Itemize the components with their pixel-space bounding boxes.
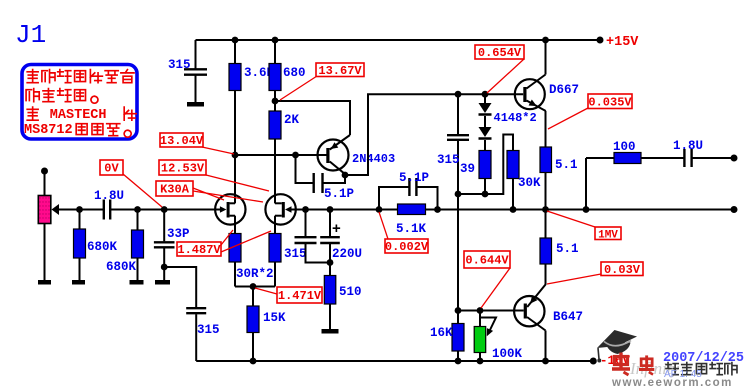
wire 5.1upper to main — [545, 173, 547, 239]
svg-text:0.644V: 0.644V — [465, 254, 509, 268]
wire cap315TL bottom — [195, 76, 197, 103]
node 16K rail — [455, 358, 462, 365]
svg-text:+: + — [332, 220, 341, 237]
resistor R 680K (2) — [132, 230, 144, 258]
capacitor C 220U — [320, 237, 340, 243]
capacitor C 315 (right) — [447, 135, 469, 140]
svg-text:100K: 100K — [492, 347, 523, 361]
svg-text:100: 100 — [613, 140, 636, 154]
svg-text:220U: 220U — [332, 247, 362, 261]
leader 13.04V — [202, 147, 234, 154]
wire long vertical 458 upper — [457, 94, 459, 134]
terminal input top — [41, 168, 48, 175]
svg-text:5.1K: 5.1K — [396, 222, 427, 236]
svg-text:0.035V: 0.035V — [588, 95, 632, 109]
ground (510) — [322, 329, 339, 334]
wire 680 top — [274, 40, 276, 64]
wire diode to R39 — [484, 140, 486, 151]
node main/33P — [161, 206, 168, 213]
wire source join — [235, 286, 275, 288]
watermark url — [611, 377, 733, 389]
node 15K rail — [250, 358, 257, 365]
wire y194 row — [458, 135, 513, 195]
svg-text:30K: 30K — [518, 176, 541, 190]
leader 0.035V — [548, 108, 588, 129]
leader 1.471V — [255, 288, 277, 294]
capacitor C 5.1P (right) — [409, 178, 416, 196]
label 3.6K — [244, 66, 275, 80]
label 4148*2 — [494, 111, 537, 125]
wire 16K top — [457, 311, 459, 324]
label 1.8U (left) — [94, 189, 124, 203]
svg-text:510: 510 — [339, 285, 362, 299]
wire output h1 — [586, 157, 614, 159]
wire 315mid top — [305, 210, 307, 237]
svg-text:13.67V: 13.67V — [318, 64, 362, 78]
resistor R 39 — [479, 151, 491, 179]
label 15K — [263, 311, 286, 325]
wire 100K bottom — [479, 353, 481, 362]
label 16K — [430, 326, 453, 340]
diode D2 4148 — [479, 127, 492, 139]
svg-text:5.1P: 5.1P — [399, 171, 429, 185]
voltage box 0.002V — [385, 239, 429, 254]
resistor R 15K — [247, 306, 259, 333]
wire 220U top — [329, 210, 331, 237]
capacitor C 1.8U (right) — [684, 149, 691, 167]
node C (680/2K junction) — [272, 98, 279, 105]
wire 33P top — [163, 210, 165, 242]
svg-text:680K: 680K — [106, 260, 137, 274]
label 2K — [284, 113, 300, 127]
capacitor C 5.1P (left) — [314, 173, 323, 193]
wire D667 collector to rail — [545, 40, 547, 75]
label 680K (2) — [106, 260, 137, 274]
svg-text:D667: D667 — [549, 83, 579, 97]
wire 680K2 bottom — [137, 258, 139, 280]
wire pot bottom — [44, 224, 46, 281]
node 33P bottom — [161, 264, 168, 271]
wire 30K bottom to main — [512, 179, 514, 210]
voltage box 13.04V — [160, 133, 204, 148]
svg-text:12.53V: 12.53V — [161, 162, 205, 176]
wire 3.6K bottom to JFET1 drain — [234, 91, 236, 204]
wire output h3 — [692, 157, 734, 159]
svg-text:16K: 16K — [430, 326, 453, 340]
resistor R 30R (2) — [269, 234, 281, 263]
watermark faint text — [629, 359, 680, 378]
node base row 458 — [455, 307, 462, 314]
transistor Q3 B647 — [514, 296, 545, 331]
label + polarity — [332, 220, 341, 237]
wire 680K1 bottom — [79, 258, 81, 280]
label 100K — [492, 347, 523, 361]
resistor R 5.1 (lower) — [540, 238, 552, 264]
node main/680K2 — [134, 206, 141, 213]
leader 0.002V — [379, 212, 388, 239]
wire 510 bottom — [329, 304, 331, 329]
capacitor C 315 (top-left) — [184, 69, 207, 74]
svg-text:315: 315 — [284, 247, 307, 261]
node source join — [250, 283, 257, 290]
wire between diodes — [484, 116, 486, 127]
ground (33P) — [155, 280, 170, 285]
capacitor C 315 (bottom-left) — [186, 308, 206, 313]
wiper arrow input — [52, 204, 60, 215]
transistor Q4 K30A (left JFET) — [215, 194, 245, 224]
resistor R 16K — [452, 324, 464, 352]
resistor R 30K — [507, 151, 519, 179]
node main/30K — [510, 206, 517, 213]
wire 100K top — [479, 311, 481, 327]
voltage box 1.471V — [277, 287, 322, 303]
label 30K — [518, 176, 541, 190]
resistor R 680K (1) — [74, 229, 86, 258]
node drain1 (y155) — [232, 152, 239, 159]
node diode-cap junction (458,94) — [455, 91, 462, 98]
leader 1.487V a — [221, 230, 233, 245]
svg-text:0V: 0V — [104, 162, 119, 176]
svg-text:1.8U: 1.8U — [673, 139, 703, 153]
wire 2K bottom to JFET2 drain — [274, 139, 276, 203]
wire bottom rail — [196, 360, 593, 362]
svg-text:1MV: 1MV — [598, 229, 618, 241]
wire main left segment — [58, 209, 103, 211]
node Q1 collector — [342, 172, 349, 179]
label 5.1 (upper) — [555, 158, 578, 172]
wire Q5 source — [274, 216, 276, 234]
leader 12.53V — [206, 175, 269, 191]
node main/gate2 (305.5) — [302, 206, 309, 213]
wire 33P to ground — [163, 267, 165, 280]
resistor R 30R (1) — [229, 234, 241, 263]
wire 5.1lower to B647 emitter — [527, 264, 545, 307]
watermark graduation cap — [597, 330, 637, 363]
svg-text:680K: 680K — [87, 240, 118, 254]
wire diode branch top — [484, 94, 486, 103]
capacitor C 315 (mid) — [295, 237, 317, 243]
svg-text:13.04V: 13.04V — [160, 134, 204, 148]
resistor R 5.1K — [398, 204, 426, 215]
label 1.8U (right) — [673, 139, 703, 153]
node gate junction (295.5,155) — [292, 152, 299, 159]
wire Q4 source bottom — [234, 262, 236, 287]
voltage box 0.644V — [464, 251, 510, 268]
ground (680K 2) — [130, 280, 144, 285]
svg-text:+15V: +15V — [606, 35, 639, 50]
wire 680 to 2K — [274, 91, 276, 112]
voltage box 13.67V — [316, 63, 364, 78]
transistor Q5 K30A (right JFET) — [265, 194, 295, 224]
resistor R 680 — [269, 64, 281, 91]
wire 680K1 top — [79, 210, 81, 230]
svg-text:1.471V: 1.471V — [278, 289, 322, 303]
svg-text:315: 315 — [197, 323, 220, 337]
voltage box 12.53V — [159, 160, 206, 176]
label 5.1K — [396, 222, 427, 236]
wire 33P bottom — [163, 248, 165, 267]
wire main mid segment — [111, 209, 222, 211]
svg-text:MS8712: MS8712 — [24, 123, 73, 138]
svg-text:1.487V: 1.487V — [177, 243, 221, 257]
svg-text:4148*2: 4148*2 — [494, 111, 537, 125]
watermark -16V label — [600, 354, 631, 368]
wire Q5 source bottom — [274, 262, 276, 287]
wire 33P node to cap315BL — [164, 267, 196, 307]
transistor Q1 2N4403 — [318, 135, 351, 174]
wire main right segment — [290, 209, 734, 211]
node main/combo left — [376, 206, 383, 213]
resistor R 510 — [324, 276, 336, 305]
watermark date — [663, 351, 744, 366]
svg-text:K30A: K30A — [160, 183, 190, 197]
wire D667 emitter down — [545, 111, 547, 147]
svg-text:B647: B647 — [553, 310, 583, 324]
node D667 collector rail — [542, 37, 549, 44]
potentiometer R 100K — [474, 327, 486, 353]
svg-text:315: 315 — [168, 58, 191, 72]
label 315 (top-left cap) — [168, 58, 191, 72]
leader K30A a — [193, 188, 224, 200]
node A (top rail / 3.6K) — [232, 37, 239, 44]
wiper wire 100K — [480, 318, 496, 337]
node main/5.1 junction — [542, 206, 549, 213]
label 5.1P (right) — [399, 171, 429, 185]
wire 15K to rail — [252, 333, 254, 362]
leader 1MV — [547, 211, 595, 227]
node 458/194 junction — [455, 191, 462, 198]
node diode top (485,94) — [482, 91, 489, 98]
node output end — [731, 155, 738, 162]
capacitor C 33P — [154, 242, 175, 247]
leader 0.654V — [487, 59, 524, 93]
resistor R 100 — [614, 153, 641, 164]
wire 3.6K top — [234, 40, 236, 64]
watermark site name — [666, 363, 737, 375]
label 315 (right cap) — [437, 153, 460, 167]
svg-text:39: 39 — [460, 162, 475, 176]
wire node C to Q1 emitter — [275, 101, 350, 135]
voltage box 1MV — [595, 227, 621, 241]
svg-text:5.1P: 5.1P — [324, 187, 354, 201]
svg-text:0.654V: 0.654V — [478, 46, 522, 60]
transistor Q2 D667 — [515, 75, 546, 112]
wire pot top — [44, 171, 46, 196]
svg-text:30R*2: 30R*2 — [236, 267, 274, 281]
label +15V — [606, 35, 639, 50]
resistor R 5.1 (upper) — [540, 147, 552, 173]
leader 0V — [123, 174, 162, 207]
svg-text:5.1: 5.1 — [556, 242, 579, 256]
svg-text:1.8U: 1.8U — [94, 189, 124, 203]
leader 1.487V b — [221, 231, 271, 252]
node rail end — [590, 358, 597, 365]
leader K30A b — [193, 191, 263, 202]
voltage box 0.03V — [601, 262, 643, 277]
node main/output branch — [583, 206, 590, 213]
wire long vertical 458 lower — [457, 141, 459, 310]
node B647 collector rail — [542, 358, 549, 365]
label 2N4403 — [352, 152, 395, 166]
node 100K rail — [477, 358, 484, 365]
svg-text:15K: 15K — [263, 311, 286, 325]
node base row 480 — [477, 307, 484, 314]
wire 315mid bottom — [306, 244, 331, 263]
svg-text:J1: J1 — [15, 20, 46, 50]
wire output up — [585, 158, 587, 210]
wire 5.1P right — [323, 175, 345, 183]
label 100 — [613, 140, 636, 154]
label B647 — [553, 310, 583, 324]
label 33P — [167, 227, 190, 241]
voltage box 0V — [100, 160, 123, 176]
svg-text:www.eeworm.com: www.eeworm.com — [611, 377, 733, 389]
resistor R 3.6K — [229, 64, 241, 91]
wire 220U bottom — [329, 244, 331, 263]
label 315 (mid) — [284, 247, 307, 261]
node main/combo right — [434, 206, 441, 213]
node main end — [731, 206, 738, 213]
wire Q4 source — [234, 216, 236, 234]
label D667 — [549, 83, 579, 97]
note box (measurement note) — [22, 65, 137, 140]
svg-text:0.03V: 0.03V — [604, 263, 641, 277]
svg-text:0.002V: 0.002V — [385, 240, 429, 254]
wire cap315TL top — [195, 40, 197, 69]
svg-text:2K: 2K — [284, 113, 300, 127]
wire output h2 — [641, 157, 684, 159]
svg-text:33P: 33P — [167, 227, 190, 241]
label 680K (1) — [87, 240, 118, 254]
voltage box 0.035V — [588, 94, 632, 109]
voltage box 0.654V — [475, 45, 524, 60]
wire R39 bottom — [484, 179, 486, 195]
wire B647 base row — [458, 310, 524, 312]
leader 13.67V — [280, 76, 317, 100]
label 315 (bottom-left) — [197, 323, 220, 337]
wire 16K bottom — [457, 351, 459, 361]
label 39 — [460, 162, 475, 176]
wire Q1 collector to D667 base — [345, 94, 523, 175]
voltage box 1.487V — [177, 242, 221, 257]
capacitor C 1.8U (left) — [104, 200, 110, 220]
node B (top rail / 680) — [272, 37, 279, 44]
label 510 — [339, 285, 362, 299]
resistor R 2K — [269, 111, 281, 139]
potentiometer RP input — [38, 196, 51, 224]
wire join to 15K — [252, 287, 254, 307]
wire B647 collector to rail — [545, 331, 547, 362]
wire 510 top — [329, 263, 331, 276]
label 5.1 (lower) — [556, 242, 579, 256]
svg-text:680: 680 — [283, 66, 306, 80]
wire base row y155 — [235, 154, 327, 156]
node 510 top — [327, 259, 334, 266]
label 680 — [283, 66, 306, 80]
diode D1 4148 — [479, 103, 492, 115]
label 220U — [332, 247, 362, 261]
ground (pot) — [38, 280, 51, 285]
title J1 — [15, 20, 46, 50]
svg-text:315: 315 — [437, 153, 460, 167]
ground (680K 1) — [72, 280, 85, 285]
leader 0.644V — [481, 268, 510, 308]
wire 680K2 top — [137, 210, 139, 231]
node R39 bottom (485,194) — [482, 191, 489, 198]
part box K30A — [156, 181, 193, 197]
node main/220U (330) — [327, 206, 334, 213]
watermark chong chong logo — [612, 353, 654, 376]
node main/680K1 — [76, 206, 83, 213]
ground (under 315 top-left) — [187, 102, 204, 107]
wire combo loop right — [417, 187, 438, 210]
svg-text:2N4403: 2N4403 — [352, 152, 395, 166]
svg-text:5.1: 5.1 — [555, 158, 578, 172]
leader 0.03V — [547, 274, 601, 284]
wire +15V rail — [196, 39, 601, 41]
label 30R*2 — [236, 267, 274, 281]
wire cap315BL to rail — [195, 314, 197, 361]
svg-text:MASTECH: MASTECH — [50, 108, 107, 123]
label 5.1P (left) — [324, 187, 354, 201]
wire combo loop — [379, 187, 409, 210]
watermark af text — [664, 369, 702, 380]
wire 5.1P left — [296, 155, 314, 183]
wire rail end terminal — [597, 37, 604, 44]
